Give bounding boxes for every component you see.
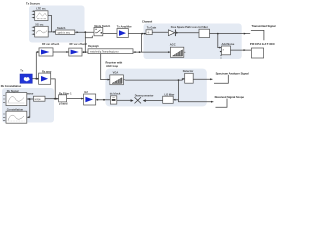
block SCOPE1 [6,93,27,106]
block FSPL: path loss symbol [168,29,178,36]
block AMP3 label [42,69,52,73]
block RAMP1 label [113,70,119,74]
arrowhead into gain1 [144,33,146,35]
block SWITCH: manual switch [94,27,103,35]
wire: branch under manual switch [85,32,92,38]
block AMPT: transmit amplifier [117,29,128,38]
block SRC1 label [36,6,46,10]
junction dot on lower wire [139,51,141,53]
SCOPE1 port marks [3,96,5,103]
block BLK3 label [199,25,208,29]
block SCOPE1 label [7,89,19,93]
svg-text:PROPAGATION: PROPAGATION [250,42,275,46]
block BOX5 [59,95,67,102]
SRC2 input port marks [32,26,35,35]
wire: branch up to amp1 [36,52,38,79]
arrowhead after long box [135,51,137,53]
area title: transmitter [26,1,41,5]
arrowhead into amp2 [66,51,68,53]
svg-text:Receiver with: Receiver with [106,61,123,65]
wire: vertical tap down to lower path [141,34,143,53]
block AMP2 [69,48,82,56]
arrowhead into scope2 [27,116,29,118]
svg-text:scope: scope [35,99,42,101]
svg-text:Rx amp: Rx amp [42,69,52,73]
svg-text:LTE src: LTE src [36,6,46,10]
block NOISE label [20,69,24,73]
wire: gain1 to path loss [152,31,168,33]
svg-text:Free Space Path Loss: Free Space Path Loss [171,25,199,29]
area title: receiver line2 [106,64,118,68]
wire: dbox to scope1 [27,98,34,100]
wire: B0 to mixer [117,99,131,101]
svg-text:Add Noise: Add Noise [222,42,235,46]
wire: tap down to B2 and exit wire [179,80,214,102]
block NOISE: noise source [20,74,32,83]
wire: tx amp into channel gain [128,33,146,35]
area title: channel [142,20,153,24]
block DBOX [34,96,46,101]
arrowhead left toward dbox [53,98,55,100]
svg-text:Received Signal Scope: Received Signal Scope [215,95,245,99]
block RAMP1: ramp gain block [110,75,125,85]
block SRC1: source with spectrum icon [35,11,48,21]
svg-text:VGA: VGA [113,70,119,74]
junction dot at noise branch [35,78,37,80]
wire: amp4 into receiver container [96,99,111,101]
svg-text:dc block: dc block [110,91,121,95]
wire: WBOX to manual switch [75,31,94,33]
leader for spectrum label [214,75,228,83]
wire: B2 to mixer [146,100,163,102]
svg-text:RF var offset1: RF var offset1 [42,42,60,46]
block GAIN1 [146,30,152,35]
block SRC2 label [35,22,44,26]
junction dot on lower wire at branch [84,51,86,53]
svg-text:Rx Signal: Rx Signal [7,89,19,93]
arrowhead into selector box [54,31,56,33]
svg-text:wave: wave [27,93,34,96]
wire: branch down from long box to ramp1 [101,54,110,80]
block WBOX: signal selector [56,30,75,35]
svg-text:Tx Amplifier: Tx Amplifier [117,24,132,28]
block GAIN1 label [147,26,157,30]
wire: scope bus horizontal [45,98,59,100]
svg-text:LO filter: LO filter [165,92,175,96]
block LONGBOX: channel model [88,49,133,54]
wire: sum output to received end [231,49,252,51]
area: Receiver container (bottom middle) [105,69,206,107]
block DBOX label [27,93,34,96]
annotation: Transmitted Signal label [252,24,276,28]
junction dot for B2 tap [178,79,180,81]
block LONGBOX label [88,44,99,48]
block SUM label [222,42,235,46]
arrowhead into amp1 [37,51,39,53]
svg-text:matched/g.Tsampling/g.rxo: matched/g.Tsampling/g.rxo [90,50,119,53]
wire: branch down to scope2 [27,99,30,117]
area title: receiver line1 [106,61,123,65]
block AMP1 label [42,42,60,46]
wire: amp1 to amp2 [53,51,69,53]
block AMP2 label [70,42,88,46]
block FSPL label [171,25,199,29]
wire: switch to tx amp [103,33,117,35]
svg-text:AGC loop: AGC loop [106,64,118,68]
junction dot on top wire [84,31,86,33]
svg-text:Rx Constellation: Rx Constellation [1,84,22,88]
svg-text:Tx Sources: Tx Sources [26,1,41,5]
wire: branch continues down to lower path [84,38,86,52]
block MIXER [131,97,146,103]
block B2 [163,96,174,103]
annotation: received signal label [215,95,245,99]
svg-text:AGC: AGC [170,42,176,46]
block B1 [185,73,194,83]
arrowhead at exit wire2 [211,101,213,103]
arrowhead into amp3 [37,78,39,80]
SCOPE2 port marks [3,114,5,121]
block B1 label [183,69,194,73]
junction dot for scope2 branch [29,98,31,100]
wire: SRC1 output down to switch input [48,16,52,32]
svg-text:Tx Gain: Tx Gain [147,26,157,30]
area title: scopes [1,84,22,88]
svg-text:Transmitted Signal: Transmitted Signal [252,24,276,28]
arrowhead into long box [83,51,85,53]
block RAMP2 label [170,42,176,46]
arrowhead into sum port1 [219,47,221,49]
block BLK3 [199,29,210,37]
svg-text:Channel: Channel [142,20,153,24]
arrowhead at sum output end [244,49,246,51]
block B2 label [165,92,175,96]
block SWITCH label [94,24,110,28]
block WBOX label [57,26,66,30]
arrowhead right into box5 [56,98,58,100]
area: Dual Mode Transmitter container [29,6,85,43]
wire: path loss to rx filter [176,32,199,34]
arrowhead into ramp1 [108,79,110,81]
block B0 label [110,91,121,95]
block AMPT label [117,24,132,28]
wire: box5 to amp4 [67,98,84,100]
svg-text:Rayleigh: Rayleigh [88,44,99,48]
block MIXER label [135,94,154,98]
annotation: channel section letterspaced label [250,42,275,46]
arrowhead into B1 [183,78,185,80]
block B0 [110,96,116,104]
block SCOPE2 label [7,108,24,112]
block SRC2: source with waveform icon [35,26,49,37]
wire: amp2 to long box [82,51,88,53]
svg-text:G2: G2 [84,90,88,94]
wire: SRC2 output to selector box [48,31,54,33]
wire: lower path from long box into channel [133,51,170,53]
junction dot at amp3 tap [54,98,56,100]
area: RF Channel container (top right) [144,24,242,60]
arrowhead after WBOX [77,31,79,33]
arrowhead at transmitted wire end [244,33,246,35]
wire: blk3 output across to transmitted signal end [210,33,251,35]
small terminator box lower right [251,48,263,58]
svg-text:Detector: Detector [183,69,194,73]
svg-text:5G src: 5G src [35,22,44,26]
annotation: spectrum signal label [216,71,249,75]
svg-text:Switch: Switch [57,26,66,30]
block AMP4: LNA [84,94,96,105]
junction dot on receiver input [103,99,105,101]
wire: tap down to sum [218,34,220,48]
wire: amp3 down to scope bus [51,79,56,99]
arrowhead into B2 (left pointing) [173,99,175,101]
leader for received label [216,99,228,108]
svg-text:-K-: -K- [147,31,150,34]
junction dot before channel [141,33,143,35]
arrowhead after amp4 [97,99,99,101]
block SCOPE2 [6,111,27,123]
block SUM: noise adder [220,46,231,58]
wire: short branch into B2 [175,99,179,101]
SRC1 input port marks [32,10,35,18]
arrowhead into scope1 [27,98,29,100]
block AMP1 [39,48,53,56]
svg-text:p band: p band [59,102,68,106]
svg-text:RF var offset2: RF var offset2 [70,42,88,46]
svg-text:Downconverter: Downconverter [135,94,154,98]
svg-text:qpsk tx seq: qpsk tx seq [58,31,71,34]
wire: noise out [32,78,38,80]
wire: B1 output exit [193,78,212,80]
wire: ramp1 long run to B1 [125,79,185,80]
arrowhead into ramp2 [168,51,170,53]
junction dot after blk3 [217,33,219,35]
arrowhead into amp4 [81,98,83,100]
block AMP3 [39,73,51,84]
block BOX5 label [59,91,72,95]
block RAMP2: ramp icon block [170,47,185,57]
svg-text:In Filter: In Filter [199,25,208,29]
area: Scopes container (bottom left) [2,88,54,123]
svg-text:Spectrum Analyzer Signal: Spectrum Analyzer Signal [216,71,249,75]
leader line for transmitted signal [251,30,264,40]
block BOX5 sublabel [59,102,68,106]
arrowhead at wire1 end [210,78,212,80]
block AMP4 label [84,90,88,94]
